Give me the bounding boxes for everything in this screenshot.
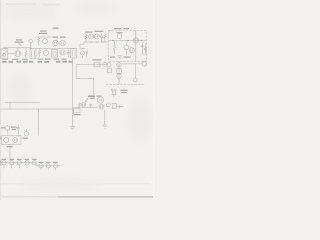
output transformer T4 [94, 62, 100, 67]
capacitor C9 [117, 63, 121, 67]
scan bottom edge shadow [2, 196, 60, 197]
wire output loop top [76, 64, 108, 66]
resistor R1 [25, 48, 27, 59]
capacitor C1 [43, 39, 48, 44]
junction dots converter bus [91, 41, 104, 42]
parts list text row left [2, 61, 33, 63]
value labels row2 [38, 59, 67, 60]
tube V8 [133, 38, 138, 43]
value label under T1 [2, 59, 28, 61]
wire battery stub [116, 106, 123, 108]
wire detector down [104, 110, 106, 125]
power supply label [114, 28, 129, 29]
wire dashed AC line [106, 84, 146, 86]
resistor R6 [114, 41, 116, 54]
wire heater vertical [135, 64, 137, 78]
node converter label [85, 31, 104, 33]
node OSC label [39, 31, 47, 35]
capacitor C11 [103, 62, 107, 66]
capacitor C7 electrolytic [144, 44, 147, 55]
capacitor C16 [90, 104, 93, 107]
wire long bottom bus [1, 108, 75, 110]
wire AVC stub [9, 103, 11, 109]
IF transformer T3 [52, 50, 58, 58]
wire mid horizontal bus [36, 48, 75, 50]
label under T5 [7, 146, 13, 147]
capacitor C14 [17, 125, 20, 137]
label R14 [74, 114, 81, 115]
resistor R8 box [117, 69, 121, 74]
wire bus drop [38, 109, 40, 136]
label T4 [93, 59, 102, 60]
wire top-left horizontal [4, 47, 32, 49]
parts list text row mid [38, 61, 73, 63]
node AM ANT label [15, 39, 24, 43]
capacitor C4 [100, 34, 103, 42]
resistor R13 [86, 50, 88, 57]
junction dots supply bus [112, 40, 142, 41]
transistor V2 [53, 40, 59, 46]
IF transformer T6 [71, 49, 77, 59]
transistor V5 [89, 34, 94, 39]
antenna coil T1 [1, 49, 8, 59]
resistor R5 [104, 33, 106, 42]
electrolytic E7 [46, 164, 50, 170]
capacitor C8 [107, 63, 111, 67]
transistor V4 [60, 50, 65, 55]
tube V12a [97, 97, 103, 103]
transistor V1 [15, 48, 21, 57]
resistor R9 [79, 103, 81, 108]
battery plus mark [118, 105, 121, 108]
capacitor C3 [67, 50, 70, 58]
electrolytic E8 [53, 164, 57, 170]
faint top ghost text [6, 3, 60, 6]
wire long vertical screen [72, 58, 74, 127]
value text supply [110, 57, 131, 58]
capacitor C17 [80, 48, 85, 58]
transistor V6 [94, 34, 99, 39]
wire loop mid horizontal [76, 78, 93, 80]
IF transformer T2 [30, 49, 36, 59]
AC label [120, 90, 127, 94]
wire loop left vertical [75, 65, 77, 79]
electrolytic E4 [25, 161, 29, 168]
speaker transformer T5 box [2, 136, 22, 144]
wire bus right drop [73, 109, 75, 115]
scan left edge [0, 0, 1, 200]
transistor V2 label [53, 37, 66, 38]
capacitor C6 electrolytic [141, 44, 144, 55]
resistor R2 [38, 37, 40, 46]
transistor V11 [81, 103, 85, 107]
speaker coil L1 [4, 138, 9, 143]
speaker coil L2 [13, 138, 18, 143]
wire T1 to V1 [4, 48, 15, 54]
wire converter bus [84, 41, 108, 43]
wire antenna arrow [19, 44, 22, 46]
electrolytic E5 [32, 161, 36, 165]
tube V9 [129, 48, 134, 53]
resistor R3 [39, 49, 41, 58]
capacitor C5 [124, 44, 129, 56]
label loop [88, 96, 102, 98]
wire bottom chain bus [1, 163, 60, 166]
rectifier V7 [117, 34, 122, 39]
wire AVC line upper [5, 102, 40, 104]
wire right column vertical [118, 61, 120, 84]
rectifier V7 label [117, 32, 123, 33]
label detector [89, 95, 96, 98]
wire loop mid vertical [93, 79, 95, 98]
tube V12b [99, 104, 104, 109]
wire speaker down [9, 144, 11, 161]
terminal strip left [1, 161, 2, 166]
ground supply [118, 56, 122, 59]
power supply dashed box [108, 30, 146, 61]
wire osc horizontal [36, 36, 52, 38]
label T5 [0, 137, 2, 140]
wire heater horizontal [122, 63, 143, 65]
label C13 [1, 127, 17, 131]
resistor R10 diagonal [85, 98, 88, 102]
electrolytic E2 [10, 161, 14, 168]
capacitor C2 [44, 49, 49, 56]
pilot lamp I1 [133, 78, 137, 82]
electrolytic E3 [17, 161, 21, 168]
resistor R7 box [107, 68, 111, 73]
chain labels [2, 159, 58, 163]
capacitor C13 [5, 126, 9, 133]
resistor R14 box [74, 109, 81, 113]
scan right margin strip [152, 0, 155, 196]
capacitor C10 [117, 74, 121, 81]
ground detector [103, 125, 107, 128]
capacitor C18 [29, 39, 33, 49]
wire bus elbow down [80, 42, 84, 48]
electrolytic E1 [2, 161, 6, 168]
wire supply mid vertical [135, 31, 137, 61]
resistor R4 [85, 34, 87, 43]
node B2 label [53, 28, 59, 29]
resistor R11 box [112, 103, 116, 108]
scan bottom fold line [0, 183, 150, 186]
transistor V3 [60, 40, 66, 46]
wire supply bus [109, 40, 147, 42]
AC plug P1 [111, 89, 116, 97]
label speaker [23, 138, 29, 139]
tube V10 [142, 62, 146, 66]
wire audio stage bus [73, 107, 98, 109]
electrolytic E6 [39, 164, 43, 170]
ground screen [71, 127, 75, 130]
capacitor C12 [106, 103, 110, 107]
paper mottling [4, 2, 152, 191]
capacitor C15 [24, 130, 28, 136]
